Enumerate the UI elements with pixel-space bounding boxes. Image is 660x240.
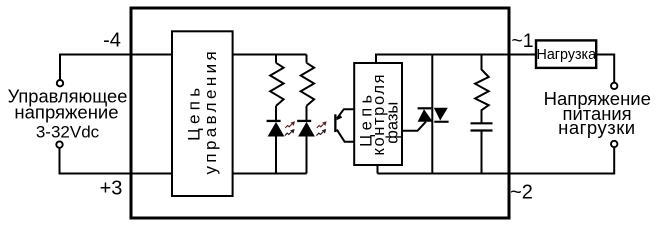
svg-text:+3: +3 bbox=[100, 178, 123, 200]
terminal circle bottom-right bbox=[611, 141, 617, 147]
wire control top rail bbox=[233, 54, 307, 56]
resistor R2 bbox=[301, 63, 314, 106]
control circuit block U1 (Цепь управления) bbox=[172, 31, 233, 196]
wire -4 input bbox=[60, 55, 172, 80]
wire ~2 output bbox=[509, 148, 614, 174]
wire power bottom rail bbox=[378, 165, 510, 174]
svg-text:напряжение: напряжение bbox=[14, 102, 118, 123]
svg-text:фазы: фазы bbox=[384, 102, 402, 144]
LED D1 bbox=[267, 120, 281, 122]
terminal circle top-left (-4 input) bbox=[57, 80, 63, 86]
terminal circle bottom-left (+3 input) bbox=[56, 141, 62, 147]
phase control block U2 (Цепь контроля фазы) bbox=[354, 63, 402, 165]
phototransistor Q1 bbox=[334, 109, 354, 142]
wire LED branch 2 bbox=[306, 55, 308, 174]
wire ~1 output bbox=[509, 54, 535, 56]
capacitor C1 (snubber) bbox=[471, 123, 493, 130]
resistor R3 (snubber) bbox=[475, 55, 489, 123]
LED D2 emission arrows bbox=[317, 122, 326, 128]
LED D1 emission arrows bbox=[285, 122, 294, 128]
terminal circle top-right bbox=[611, 83, 617, 89]
svg-text:нагрузки: нагрузки bbox=[558, 117, 636, 138]
wire load to top terminal bbox=[596, 55, 614, 83]
svg-text:-4: -4 bbox=[103, 30, 121, 52]
svg-text:управления: управления bbox=[201, 51, 220, 174]
wire power top rail bbox=[376, 55, 509, 64]
resistor R1 bbox=[270, 63, 283, 106]
load box (Нагрузка) bbox=[536, 40, 596, 68]
svg-text:Нагрузка: Нагрузка bbox=[537, 47, 597, 63]
wire LED branch 1 bbox=[275, 55, 277, 174]
triac Q2 bbox=[402, 55, 449, 174]
svg-text:~2: ~2 bbox=[510, 182, 533, 204]
wire LED return rail bbox=[233, 173, 307, 175]
outer case box bbox=[131, 8, 509, 218]
LED D2 bbox=[297, 120, 311, 122]
svg-text:3-32Vdc: 3-32Vdc bbox=[36, 123, 100, 142]
svg-text:~1: ~1 bbox=[511, 30, 533, 52]
wire +3 input bbox=[60, 148, 173, 173]
